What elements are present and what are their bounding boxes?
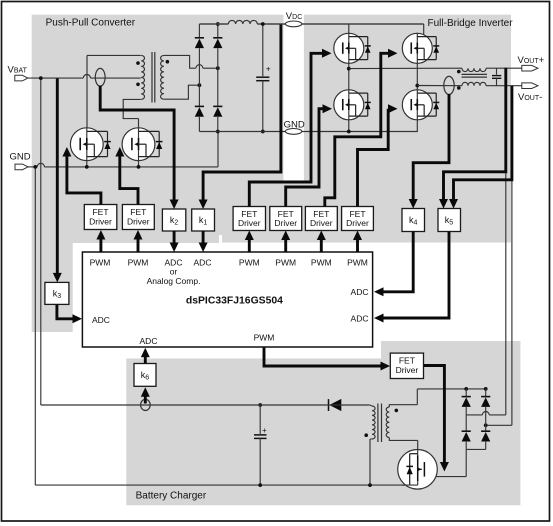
- transistor Q1: [70, 128, 103, 161]
- capacitor C1 bus: [262, 24, 264, 76]
- transistor Q5: [334, 90, 364, 120]
- svg-text:Full-Bridge Inverter: Full-Bridge Inverter: [428, 18, 514, 29]
- FET driver U4: [233, 207, 265, 231]
- svg-text:Driver: Driver: [346, 218, 369, 228]
- wire PWM to U6: [320, 240, 323, 252]
- wire k4 to ADC: [384, 232, 414, 292]
- wire gate drive Q5: [286, 109, 323, 207]
- pin GND: [15, 164, 28, 170]
- wire T1 secondary to rectifier: [164, 55, 196, 68]
- wire PWM to U5: [284, 240, 287, 252]
- svg-text:PWM: PWM: [347, 258, 368, 268]
- block k2: [162, 209, 185, 231]
- inductor L1: [228, 20, 257, 24]
- wire PWM to U7: [356, 240, 359, 252]
- oval output current sensor: [444, 76, 454, 94]
- wire k5 to ADC: [384, 232, 450, 319]
- svg-text:Driver: Driver: [310, 218, 333, 228]
- svg-text:Analog Comp.: Analog Comp.: [147, 276, 201, 286]
- svg-text:Driver: Driver: [127, 216, 150, 226]
- svg-text:+: +: [262, 426, 267, 435]
- transistor Q7 battery charger: [398, 450, 438, 490]
- wire gate drive Q6: [358, 109, 389, 207]
- pin VBAT: [15, 75, 28, 81]
- pin VOUT-: [522, 83, 538, 89]
- transformer T1 push-pull: [141, 55, 144, 99]
- svg-text:Driver: Driver: [89, 216, 112, 226]
- wire k3 to ADC: [57, 304, 73, 318]
- transistor Q4: [402, 33, 432, 63]
- wire inverter output lines: [349, 67, 462, 69]
- transformer T1 primary leads: [87, 54, 141, 56]
- block k3: [45, 282, 69, 304]
- svg-text:Driver: Driver: [274, 218, 297, 228]
- block k1: [192, 209, 215, 231]
- oval VDC connector: [285, 21, 301, 27]
- svg-text:Push-Pull Converter: Push-Pull Converter: [46, 18, 136, 29]
- node VDC rail: [199, 23, 228, 25]
- wire PWM to U8: [264, 348, 381, 367]
- node GND input wire: [28, 166, 37, 168]
- svg-text:ADC: ADC: [92, 315, 110, 325]
- svg-text:dsPIC33FJ16GS504: dsPIC33FJ16GS504: [186, 295, 283, 306]
- wire gate drive Q2: [120, 156, 138, 205]
- transistor Q6: [402, 90, 432, 120]
- diode bridge battery charger D6-D9: [417, 388, 485, 390]
- block k5: [438, 209, 461, 232]
- svg-text:ADC: ADC: [351, 314, 369, 324]
- svg-text:PWM: PWM: [254, 333, 275, 343]
- wire gate drive Q1: [67, 156, 101, 205]
- svg-text:Driver: Driver: [238, 218, 261, 228]
- svg-text:ADC: ADC: [351, 287, 369, 297]
- FET driver U7: [342, 207, 374, 231]
- oval GND connector: [285, 129, 301, 135]
- svg-text:PWM: PWM: [90, 258, 111, 268]
- wire VOUT+ sense to k5: [444, 68, 506, 200]
- FET driver U8 charger: [390, 353, 423, 378]
- wire k1 to ADC: [202, 231, 205, 244]
- wire PWM to U3: [137, 239, 140, 252]
- wire PWM to U2: [99, 239, 102, 252]
- battery charger region: [126, 341, 520, 505]
- block k4: [402, 209, 425, 232]
- full-bridge leg wires: [348, 24, 350, 37]
- oval VBAT current sensor: [95, 68, 105, 86]
- block k6: [134, 364, 156, 387]
- oval charger current sensor: [141, 399, 151, 410]
- inductor L2 output filter: [462, 68, 486, 71]
- wire current sense to k2: [100, 86, 174, 201]
- pin VOUT+: [522, 65, 538, 71]
- svg-text:+: +: [266, 64, 271, 74]
- wire gate drive Q4: [325, 53, 389, 206]
- capacitor C3 charger: [259, 405, 261, 434]
- FET driver U6: [305, 207, 337, 231]
- svg-text:GND: GND: [284, 119, 305, 130]
- dsPIC33FJ16GS504 U1: [82, 252, 372, 347]
- wire VOUT+ charger feed: [505, 172, 507, 415]
- wire VBAT sense to k3: [56, 79, 59, 274]
- svg-text:PWM: PWM: [275, 258, 296, 268]
- svg-text:or: or: [170, 267, 178, 277]
- full-bridge inverter region: [222, 15, 511, 243]
- wire VOUT- sense to k5: [454, 86, 512, 200]
- svg-text:ADC: ADC: [140, 336, 158, 346]
- node GND mid rail: [199, 131, 417, 133]
- svg-text:ADC: ADC: [194, 258, 212, 268]
- diode D5: [328, 399, 330, 411]
- wire output current sense to k4: [413, 94, 449, 200]
- svg-text:Driver: Driver: [396, 365, 419, 375]
- wire GND drop to battery charger: [34, 167, 36, 485]
- wire PWM to U4: [248, 240, 251, 252]
- wire charger bridge AC inputs: [489, 414, 506, 416]
- FET driver U2: [84, 205, 117, 230]
- svg-text:PWM: PWM: [311, 258, 332, 268]
- wire VDC sense to k1: [203, 25, 281, 201]
- node VBAT input wire: [28, 77, 84, 79]
- svg-text:PWM: PWM: [128, 258, 149, 268]
- transistor Q2: [122, 128, 155, 161]
- svg-text:Battery Charger: Battery Charger: [136, 491, 207, 502]
- wire VOUT- charger feed: [511, 180, 513, 425]
- wire FET source rail to rectifier: [217, 132, 219, 167]
- svg-text:GND: GND: [10, 152, 31, 163]
- capacitor C2 output: [496, 68, 498, 75]
- FET driver U3: [122, 205, 154, 230]
- wire gate drive Q3: [249, 53, 322, 206]
- transistor Q3: [334, 33, 364, 63]
- svg-text:PWM: PWM: [239, 258, 260, 268]
- wire VBAT drop to battery charger: [40, 78, 42, 405]
- wire k2 to ADC: [173, 231, 176, 244]
- FET driver U5: [270, 207, 302, 231]
- wire gate drive Q7: [424, 366, 445, 463]
- diode bridge rectifier D1-D4: [198, 24, 200, 38]
- wire Q1 Q2 source stubs: [86, 157, 88, 167]
- wire k6 to ADC: [144, 357, 147, 364]
- transformer T2 flyback: [145, 404, 369, 406]
- push-pull converter region: [32, 15, 284, 332]
- wire charger current sense to k6: [144, 397, 147, 404]
